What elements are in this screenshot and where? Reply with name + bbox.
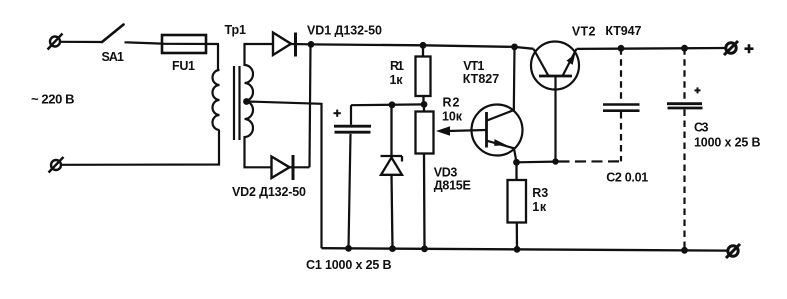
terminal output plus — [724, 41, 738, 55]
capacitor C2 (dashed leads) — [557, 48, 621, 161]
svg-text:R2: R2 — [443, 96, 460, 110]
wire primary bottom to input terminal — [62, 130, 219, 165]
terminal input top-left — [48, 34, 63, 50]
node rectifier output — [308, 41, 315, 48]
wire top rail right section — [577, 47, 727, 50]
svg-text:SA1: SA1 — [102, 50, 125, 64]
node C3 bottom — [681, 247, 688, 254]
resistor R3 — [508, 162, 527, 249]
node VT2 base — [552, 158, 558, 164]
node VD3 top — [389, 101, 396, 108]
wire secondary bottom to VD2 — [245, 136, 272, 167]
svg-text:10к: 10к — [442, 109, 463, 123]
svg-text:КТ827: КТ827 — [463, 72, 500, 86]
svg-text:VD1 Д132-50: VD1 Д132-50 — [307, 23, 382, 37]
transformer secondary winding — [245, 65, 254, 137]
svg-text:FU1: FU1 — [172, 59, 195, 73]
R2 wiper arrow to VT1 base — [436, 126, 486, 135]
node center tap — [243, 98, 250, 105]
wire secondary top to VD1 — [245, 44, 274, 66]
capacitor C1 — [334, 105, 371, 248]
resistor R2 (variable) — [416, 104, 434, 248]
svg-text:~ 220 В: ~ 220 В — [31, 92, 75, 107]
svg-text:VD2 Д132-50: VD2 Д132-50 — [232, 185, 306, 199]
transistor VT1 — [472, 47, 523, 162]
svg-text:C3: C3 — [694, 120, 709, 134]
svg-text:R1: R1 — [390, 59, 404, 73]
node VT1 collector top — [511, 44, 518, 51]
node VD3 bottom — [389, 245, 396, 252]
C1 plus sign — [334, 110, 341, 117]
svg-text:VD3: VD3 — [434, 165, 458, 179]
wire VT1 emitter to VT2 base — [517, 161, 556, 164]
transistor VT2 — [531, 42, 579, 162]
node R2 bottom — [421, 245, 428, 252]
svg-text:Тр1: Тр1 — [225, 23, 247, 37]
resistor R1 — [416, 45, 431, 102]
terminal input bottom-left — [49, 157, 64, 173]
svg-text:1к: 1к — [390, 73, 404, 87]
zener diode VD3 — [381, 105, 403, 249]
svg-text:КТ947: КТ947 — [605, 24, 641, 38]
svg-text:R3: R3 — [532, 186, 548, 200]
wire input top to switch — [60, 41, 102, 43]
fuse FU1 — [162, 35, 219, 53]
node R1 bottom — [421, 101, 428, 108]
node R1 top — [420, 42, 427, 49]
wire top rail left section — [311, 44, 534, 48]
terminal output minus — [726, 244, 740, 258]
node R3 bottom — [514, 246, 521, 253]
svg-text:VT2: VT2 — [572, 24, 596, 38]
wire VD2 cathode up to positive node — [310, 44, 311, 167]
switch SA1 — [102, 25, 124, 43]
wire C1/VD3/R1 node — [351, 103, 424, 106]
svg-text:C2 0.01: C2 0.01 — [606, 170, 648, 184]
C3 plus sign — [695, 87, 701, 93]
wire switch to fuse — [125, 42, 163, 43]
transformer core — [234, 66, 240, 140]
capacitor C3 (dashed leads) — [683, 48, 685, 250]
wire bottom rail — [322, 248, 728, 250]
wire center tap to negative rail — [248, 102, 322, 249]
svg-text:1000 x 25 В: 1000 x 25 В — [694, 136, 761, 150]
plus sign output — [745, 44, 754, 53]
node C1 bottom — [345, 245, 352, 252]
diode VD2 — [272, 155, 310, 180]
transformer T1 primary winding — [213, 70, 220, 130]
svg-text:1к: 1к — [532, 200, 547, 214]
node C2 top — [618, 45, 625, 52]
diode VD1 — [273, 33, 311, 57]
svg-text:C1 1000 x 25 В: C1 1000 x 25 В — [306, 258, 392, 272]
wire fuse to transformer primary — [217, 44, 219, 70]
node VT1 emitter — [513, 159, 520, 166]
svg-text:Д815Е: Д815Е — [434, 179, 471, 193]
node C3 top — [681, 45, 688, 52]
